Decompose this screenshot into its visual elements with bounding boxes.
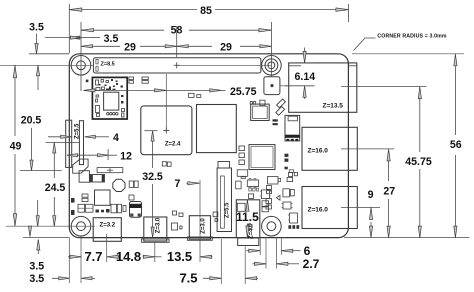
- svg-text:20.5: 20.5: [21, 115, 42, 127]
- small part left: [236, 181, 241, 189]
- svg-text:11.5: 11.5: [236, 210, 259, 224]
- svg-text:85: 85: [200, 5, 212, 17]
- audio jack Z=4.0: [236, 200, 259, 238]
- svg-text:3.5: 3.5: [29, 260, 44, 272]
- Ethernet jack Z=13.5: [289, 63, 357, 112]
- dimension 6.14: [304, 48, 306, 63]
- GPIO 40-pin header Z=8.5: [93, 58, 261, 73]
- midpoint cross mark: [174, 64, 180, 66]
- diagonal component 1: [277, 99, 286, 108]
- three dark pads near bottom-right hole: [288, 225, 291, 229]
- svg-text:6: 6: [304, 244, 311, 258]
- audio jack inner circle: [247, 224, 252, 229]
- stacked squares: [262, 201, 269, 207]
- svg-text:12: 12: [120, 151, 132, 163]
- svg-text:49: 49: [10, 141, 22, 153]
- parts below SoC: [162, 162, 166, 166]
- parts between HDMI and AV: [173, 211, 177, 215]
- svg-text:Z=16.0: Z=16.0: [308, 207, 329, 214]
- reference line y=170.6: [20, 170, 62, 172]
- LAN controller chip: [249, 145, 275, 170]
- dimension 85: [69, 9, 197, 11]
- dimension 3.5 board edge to hole horizontal: [45, 37, 69, 39]
- USB connector 2 Z=16.0: [302, 187, 357, 229]
- caps near PMIC: [129, 195, 134, 200]
- dimension 32.5: [152, 132, 154, 144]
- top edge extension left: [29, 53, 69, 55]
- component above audio jack: [237, 170, 248, 177]
- svg-text:Z=16.0: Z=16.0: [308, 148, 329, 155]
- dimension 45.75: [419, 87, 421, 152]
- svg-text:45.75: 45.75: [405, 156, 432, 168]
- dimension 29 mid arrows: [140, 45, 177, 47]
- hole center line through header: [0, 64, 93, 66]
- SoC BCM2837 Z=2.4: [141, 106, 192, 155]
- svg-text:56: 56: [450, 139, 462, 151]
- dark parts on left edge: [71, 198, 75, 203]
- RAM chip: [197, 105, 237, 153]
- bottom edge extension right: [344, 237, 469, 239]
- electrolytic capacitor with dark band: [130, 202, 142, 218]
- HDMI center extension: [154, 243, 156, 263]
- svg-text:2.7: 2.7: [303, 257, 320, 271]
- cap pair 2: [111, 204, 117, 213]
- WiFi module small parts: [96, 80, 99, 85]
- camera connector Z=5.5 flange: [218, 162, 230, 169]
- GPIO pin marks: [96, 59, 98, 64]
- dimension 24.5: [53, 143, 55, 179]
- svg-text:3.5: 3.5: [104, 33, 119, 45]
- ethernet magnetics with black band: [285, 115, 300, 140]
- WiFi shield inner chip: [104, 92, 119, 110]
- dimension 6 extension lines: [259, 239, 261, 256]
- USB1 center extension right: [341, 148, 394, 150]
- svg-text:3.5: 3.5: [29, 22, 44, 34]
- dimension 29 left: [81, 45, 120, 47]
- HDMI connector Z=3.0: [144, 217, 167, 241]
- svg-text:3.5: 3.5: [29, 273, 44, 285]
- long component with cross: [97, 168, 123, 173]
- PMIC chip: [95, 190, 111, 205]
- chip with bumps: [247, 180, 258, 187]
- WiFi module: [92, 77, 127, 119]
- dimension 4: [48, 136, 71, 138]
- cap pair left of PMIC: [82, 194, 88, 197]
- dimension 14.8: [107, 256, 120, 258]
- bottom edge extension left: [23, 237, 69, 239]
- USB hub chip: [251, 104, 270, 120]
- camera connector Z=5.5 body: [217, 168, 231, 232]
- svg-text:Z=3.2: Z=3.2: [100, 222, 116, 228]
- dimension 49: [14, 65, 16, 136]
- tiny parts above RAM: [189, 93, 195, 97]
- dimension 12 tick: [107, 149, 109, 160]
- svg-text:Z=13.5: Z=13.5: [323, 103, 344, 110]
- small parts right of LAN chip: [285, 154, 289, 157]
- hole center extension down: [80, 236, 82, 283]
- micro-USB power connector Z=3.2: [93, 218, 121, 242]
- parts row below LAN chip: [288, 173, 292, 177]
- top edge extension right: [352, 53, 464, 55]
- composite center extension: [199, 180, 201, 262]
- caps right of inductor: [129, 181, 133, 187]
- svg-text:25.75: 25.75: [230, 86, 257, 98]
- svg-text:29: 29: [220, 42, 232, 54]
- svg-text:Z=3.0: Z=3.0: [156, 217, 162, 233]
- left edge extension down: [68, 238, 70, 283]
- composite connector Z=3.0: [189, 216, 210, 240]
- dimension 7.7: [68, 256, 82, 258]
- caps row above power connector: [78, 204, 85, 212]
- svg-text:Z=8.5: Z=8.5: [101, 61, 115, 67]
- mounting hole top-left: [71, 56, 91, 76]
- dimension 25.75: [84, 89, 226, 91]
- small caps above SoC left: [129, 77, 134, 80]
- diagonal component 2: [276, 107, 285, 116]
- small dark dashes row: [96, 210, 100, 213]
- mounting hole bottom-left: [71, 216, 91, 236]
- octagonal inductor: [113, 179, 125, 191]
- dimension 2.7: [253, 263, 267, 265]
- tiny diode pair: [276, 195, 280, 200]
- dimension 27: [388, 149, 390, 181]
- tiny part near top-left hole: [86, 80, 89, 83]
- dimension 2.7 extension lines: [265, 239, 267, 269]
- dimension 32.5 tick: [144, 130, 157, 132]
- WiFi module pin circles: [107, 113, 110, 116]
- SoC center reference line: [165, 74, 167, 131]
- svg-text:6.14: 6.14: [294, 71, 315, 83]
- dimension 58: [81, 29, 164, 31]
- PoE header: [264, 77, 280, 95]
- mounting hole bottom-right: [262, 216, 282, 236]
- small dark parts left of magnetics: [273, 119, 278, 121]
- dimension 6.14 reference lines: [288, 62, 315, 64]
- small chip bottom right: [290, 213, 298, 223]
- svg-text:9: 9: [368, 189, 374, 201]
- parts near audio jack: [237, 203, 245, 211]
- bottom hole center line: [6, 225, 95, 227]
- svg-text:27: 27: [383, 186, 395, 198]
- svg-text:Z=5.5: Z=5.5: [224, 202, 230, 218]
- small caps above SoC right: [142, 77, 148, 80]
- extra down arrow left column: [37, 200, 39, 226]
- svg-text:13.5: 13.5: [167, 249, 192, 264]
- dimension 12: [67, 154, 108, 156]
- camera center extension: [220, 239, 222, 284]
- pads left of LAN chip: [239, 146, 245, 151]
- tiny pads row: [249, 188, 252, 191]
- dimension 58 extension lines: [80, 22, 82, 91]
- USB connector 1 Z=16.0: [302, 127, 357, 170]
- svg-text:7.7: 7.7: [84, 249, 102, 264]
- dimension 13.5: [155, 256, 162, 258]
- svg-text:Z=2.4: Z=2.4: [165, 142, 181, 148]
- svg-text:CORNER RADIUS = 3.0mm: CORNER RADIUS = 3.0mm: [377, 34, 447, 40]
- corner radius leader line: [354, 38, 376, 51]
- mounting hole top-right: [262, 56, 282, 76]
- svg-text:14.8: 14.8: [116, 249, 141, 264]
- PCB board outline 85x56 corner radius 3.0mm: [69, 54, 348, 238]
- ethernet center extension right: [341, 86, 426, 88]
- dimension 6: [247, 250, 261, 252]
- SoC center cross: [163, 130, 169, 132]
- micro-USB center extension: [106, 234, 108, 262]
- svg-text:7: 7: [175, 178, 181, 190]
- dimension 3.5 hole to bottom edge: [29, 228, 31, 237]
- DSI center reference line: [46, 142, 80, 144]
- inductor with dark ends: [90, 175, 105, 183]
- USB2 center extension right: [341, 206, 380, 208]
- dimension 29 mid tick: [176, 26, 178, 57]
- DSI flex outline: [73, 159, 88, 173]
- parts right of composite connector: [213, 212, 218, 217]
- dimension 56: [454, 54, 456, 135]
- vertical chip with pins: [262, 190, 270, 199]
- dimension 11.5: [246, 200, 248, 211]
- svg-text:7.5: 7.5: [179, 271, 197, 286]
- DSI display connector Z=5.5: [66, 120, 72, 167]
- tiny rect above cluster: [289, 170, 293, 173]
- svg-text:29: 29: [124, 42, 136, 54]
- small chip with pins: [283, 202, 291, 209]
- dimension 85 extension lines: [68, 4, 70, 53]
- svg-text:24.5: 24.5: [45, 182, 66, 194]
- component below DSI: [79, 171, 89, 183]
- svg-text:4: 4: [113, 132, 119, 144]
- svg-text:32.5: 32.5: [142, 171, 163, 183]
- svg-text:Z=3.0: Z=3.0: [201, 218, 207, 234]
- audio center extension: [244, 247, 246, 285]
